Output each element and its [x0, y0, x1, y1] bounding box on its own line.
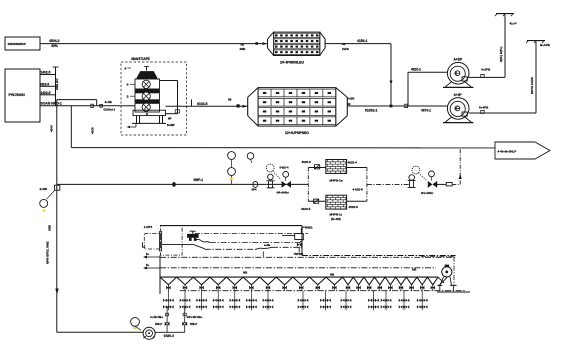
svg-text:WB.P: WB.P [190, 322, 197, 326]
svg-text:4-020-5: 4-020-5 [353, 188, 364, 192]
svg-text:N4+N4br: N4+N4br [421, 191, 434, 195]
svg-text:4+BN: 4+BN [347, 97, 354, 101]
svg-text:4-40+N+3NLP: 4-40+N+3NLP [498, 149, 517, 153]
svg-text:1-NP4: 1-NP4 [144, 225, 153, 229]
svg-text:9P4: 9P4 [252, 187, 257, 191]
svg-text:H: H [146, 112, 148, 116]
svg-text:0B: 0B [228, 98, 231, 102]
svg-text:4NB2: 4NB2 [305, 226, 313, 230]
svg-text:0102-5: 0102-5 [197, 102, 208, 106]
svg-text:4020-5: 4020-5 [349, 205, 359, 209]
svg-text:0420-4: 0420-4 [280, 165, 289, 169]
svg-text:SNB: SNB [48, 225, 52, 231]
svg-text:7NPWR: 7NPWR [294, 252, 304, 256]
svg-text:N: N [125, 68, 127, 71]
svg-text:(D+4M): (D+4M) [331, 217, 341, 221]
svg-text:4006: 4006 [91, 127, 95, 134]
svg-text:1402-5: 1402-5 [41, 71, 51, 75]
svg-text:0100(+/-): 0100(+/-) [104, 108, 115, 112]
svg-text:4020-5: 4020-5 [301, 207, 311, 211]
svg-text:8+4PB: 8+4PB [479, 106, 489, 110]
svg-text:A+BP: A+BP [454, 58, 463, 62]
svg-text:SNB BD: SNB BD [55, 78, 59, 90]
svg-text:4+2PB: 4+2PB [481, 68, 491, 72]
svg-text:SOAN NNO-1: SOAN NNO-1 [41, 102, 62, 106]
svg-text:4870-1: 4870-1 [421, 109, 431, 113]
svg-text:NNP-1: NNP-1 [194, 178, 204, 182]
svg-text:0420-4: 0420-4 [164, 334, 174, 338]
svg-text:61002-1: 61002-1 [365, 109, 378, 113]
svg-text:4WB: 4WB [240, 47, 246, 51]
svg-text:PaPB: PaPB [342, 47, 349, 51]
svg-text:4+4B NB+: 4+4B NB+ [150, 315, 164, 319]
svg-text:22+4UPNPNBO: 22+4UPNPNBO [285, 131, 309, 135]
svg-text:A+4P: A+4P [454, 93, 463, 97]
svg-text:4504-2: 4504-2 [49, 39, 60, 43]
svg-text:a+Na: a+Na [264, 244, 271, 247]
svg-text:4+NN: 4+NN [39, 187, 47, 191]
svg-text:40%: 40% [51, 44, 58, 48]
svg-text:B: B [127, 96, 129, 99]
svg-text:4020-4: 4020-4 [348, 161, 358, 165]
svg-text:4150-1: 4150-1 [357, 39, 368, 43]
svg-text:4820-1: 4820-1 [411, 68, 421, 72]
svg-text:4(DL) B(PL): 4(DL) B(PL) [499, 47, 503, 62]
svg-text:NP: NP [168, 118, 172, 121]
svg-text:4M4/4T/APE: 4M4/4T/APE [131, 57, 151, 61]
svg-text:1402-5: 1402-5 [41, 91, 51, 95]
svg-text:BP+4B NB+: BP+4B NB+ [187, 315, 203, 319]
svg-text:4020-5: 4020-5 [302, 160, 312, 164]
svg-text:PWJNSN: PWJNSN [9, 93, 26, 97]
svg-text:N4+N4br: N4+N4br [277, 191, 290, 195]
svg-text:NPR-BPDL NNE: NPR-BPDL NNE [46, 241, 50, 264]
svg-text:0B: 0B [347, 102, 350, 106]
svg-text:0B: 0B [241, 42, 244, 46]
svg-text:N02-5: N02-5 [41, 83, 50, 87]
svg-text:B+/MP: B+/MP [167, 124, 175, 127]
svg-text:B: B [127, 84, 129, 87]
svg-text:2/4 4P9RN9LBU: 2/4 4P9RN9LBU [280, 61, 305, 65]
svg-text:4004: 4004 [50, 125, 54, 132]
svg-text:M4PN-1a: M4PN-1a [330, 178, 343, 182]
svg-text:WB.P: WB.P [155, 322, 162, 326]
svg-text:4+NB: 4+NB [105, 100, 112, 104]
svg-text:BDVG SADB: BDVG SADB [530, 77, 534, 94]
svg-text:41+P: 41+P [510, 22, 517, 26]
svg-text:B+APB: B+APB [540, 43, 550, 47]
svg-text:4WbNW9WF/P: 4WbNW9WF/P [8, 42, 27, 46]
